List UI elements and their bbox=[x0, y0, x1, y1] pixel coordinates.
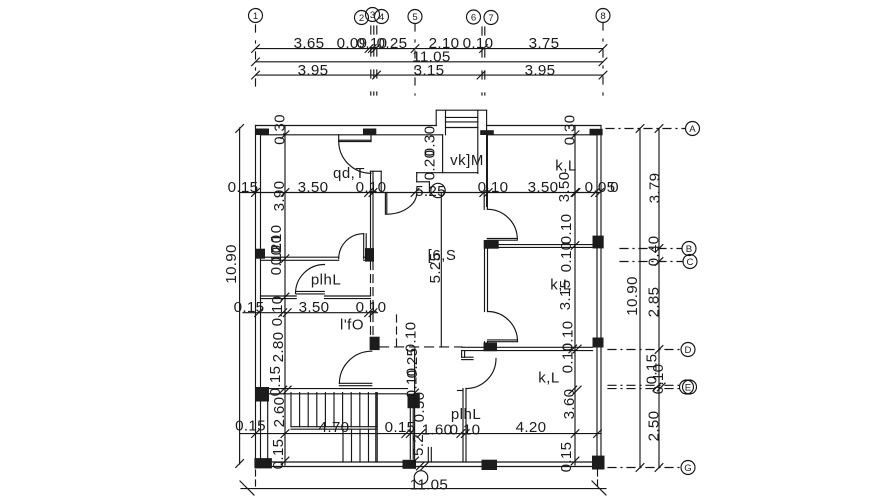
svg-text:plhL: plhL bbox=[311, 272, 341, 289]
svg-text:4.20: 4.20 bbox=[516, 419, 547, 436]
porch top bbox=[436, 109, 486, 111]
bath jamb a bbox=[462, 356, 473, 358]
svg-text:10.90: 10.90 bbox=[624, 276, 641, 316]
wall qd,T east b dashed bbox=[372, 262, 374, 337]
door D6 leaf bbox=[487, 237, 517, 239]
door D8 arc bbox=[466, 359, 496, 389]
wire axis-5 extension bbox=[414, 24, 416, 95]
svg-text:0.10: 0.10 bbox=[558, 214, 575, 245]
wall right outer bbox=[600, 126, 602, 467]
wire tick dim2 bbox=[599, 58, 607, 66]
porch right outer bbox=[486, 110, 488, 206]
wall qd,T east a dashed bbox=[370, 262, 372, 337]
svg-text:3.50: 3.50 bbox=[556, 172, 573, 203]
wall qd,T east b bbox=[372, 171, 374, 248]
wall plhL bottom west b bbox=[261, 298, 297, 300]
wire chainR vertical bbox=[574, 126, 576, 466]
door D4 arc bbox=[296, 265, 325, 294]
svg-text:0.50: 0.50 bbox=[411, 392, 428, 423]
wire chain1 ticks bbox=[252, 189, 260, 197]
wire axis-G extension bbox=[608, 467, 681, 469]
wire tick left bbox=[236, 460, 244, 468]
svg-text:0.10: 0.10 bbox=[356, 299, 387, 316]
svg-text:0.10: 0.10 bbox=[463, 35, 494, 52]
wall lobby west a bbox=[409, 404, 411, 459]
wire tick bottom left bbox=[240, 481, 254, 495]
wall top inner right bbox=[487, 134, 597, 136]
column E left bbox=[256, 387, 269, 402]
wire tick dim3 bbox=[373, 71, 381, 79]
wall qd,T step side bbox=[380, 171, 382, 192]
wire tick dim3 bbox=[252, 71, 260, 79]
wall left pilaster face bbox=[267, 397, 269, 459]
wire tick dim2 bbox=[252, 58, 260, 66]
wire top dim line 3 bbox=[256, 74, 604, 76]
door D5 arc bbox=[488, 312, 518, 342]
wire axis-4 extension bbox=[376, 26, 378, 95]
column G center bbox=[482, 460, 498, 470]
stair landing line b bbox=[291, 428, 377, 430]
svg-text:0.20: 0.20 bbox=[422, 150, 439, 181]
svg-text:3.75: 3.75 bbox=[529, 35, 560, 52]
porch alcove left bbox=[442, 135, 444, 173]
node axis-E bubble bbox=[680, 380, 694, 394]
svg-text:3.50: 3.50 bbox=[299, 299, 330, 316]
door D7 leaf bbox=[339, 382, 371, 384]
svg-text:0.10: 0.10 bbox=[650, 364, 667, 395]
stair landing line a bbox=[291, 426, 377, 428]
column G right bbox=[592, 456, 605, 470]
wire axis-E extension bbox=[608, 384, 680, 386]
stair right edge b bbox=[376, 393, 378, 462]
column top-right bbox=[590, 129, 603, 136]
node axis-C bubble bbox=[683, 255, 697, 269]
wall C plhL top a bbox=[261, 256, 339, 258]
stair upper flight treads bbox=[290, 393, 292, 427]
node axis-5 bubble bbox=[408, 10, 422, 24]
wire tick dim3 bbox=[477, 71, 485, 79]
wall E stair a bbox=[261, 388, 408, 390]
node axis-4 bubble bbox=[375, 10, 389, 24]
column D right bbox=[593, 338, 604, 348]
svg-text:D: D bbox=[685, 345, 692, 356]
wall left inner bbox=[260, 135, 262, 462]
wall B divider b bbox=[499, 246, 593, 248]
column top porch bbox=[480, 130, 494, 135]
wall qd,T east a bbox=[370, 171, 372, 248]
entry step side 2 bbox=[428, 182, 430, 193]
node axis-3 bubble bbox=[366, 8, 380, 22]
wall kL west upper b bbox=[486, 135, 488, 210]
bath wall conn a bbox=[461, 351, 463, 358]
svg-text:5.25: 5.25 bbox=[427, 253, 444, 284]
porch left outer bbox=[435, 110, 437, 125]
wire chainC vertical bbox=[414, 351, 416, 469]
wall left outer bbox=[255, 126, 257, 467]
svg-text:k,L: k,L bbox=[550, 277, 572, 294]
node axis-G bubble bbox=[681, 461, 695, 475]
wire chain4 horizontal bbox=[240, 433, 601, 435]
entry step tread bbox=[417, 181, 430, 183]
stair right edge a bbox=[375, 393, 377, 462]
svg-text:0.40: 0.40 bbox=[646, 236, 663, 267]
wire tick bottom right bbox=[592, 481, 606, 495]
wire chainL ticks bbox=[281, 131, 289, 139]
wall D b bbox=[462, 350, 593, 352]
wall left pilaster cap bbox=[261, 396, 268, 398]
wall kL west lower b bbox=[487, 249, 489, 312]
porch left inner bbox=[445, 110, 447, 135]
porch alcove floor bbox=[417, 172, 478, 174]
wire top dim line 2 (11.05) bbox=[256, 61, 604, 63]
svg-text:4: 4 bbox=[379, 12, 385, 23]
svg-text:4.70: 4.70 bbox=[319, 419, 350, 436]
wall bath jamb small bbox=[458, 390, 464, 392]
wire axis-2 extension bbox=[370, 26, 372, 95]
node axis-8 bubble bbox=[596, 9, 610, 23]
wire chain4 ticks bbox=[252, 430, 260, 438]
wire right dim line inner bbox=[658, 129, 660, 468]
wire tick dim3 bbox=[599, 71, 607, 79]
svg-text:2.85: 2.85 bbox=[646, 287, 663, 318]
wall kL west below-door b bbox=[487, 341, 489, 344]
wire right dim line outer 10.90 bbox=[639, 129, 641, 468]
wall D a bbox=[462, 346, 593, 348]
svg-text:qd,T: qd,T bbox=[333, 165, 365, 182]
column D qdT bbox=[370, 337, 380, 350]
stair lower flight treads bbox=[342, 429, 344, 462]
wire axis-F extension bbox=[608, 388, 680, 390]
wire chain2 horizontal bbox=[243, 312, 378, 314]
column qdT B/C bbox=[365, 248, 374, 262]
wall kL west below-door a bbox=[484, 341, 486, 344]
column E stair-right bbox=[408, 394, 420, 409]
wall top inner bbox=[261, 134, 443, 136]
svg-text:C: C bbox=[687, 257, 694, 268]
svg-text:2.50: 2.50 bbox=[646, 411, 663, 442]
svg-text:2.60: 2.60 bbox=[271, 397, 288, 428]
column B center bbox=[484, 240, 499, 249]
svg-text:2.80: 2.80 bbox=[270, 332, 287, 363]
svg-text:5.25: 5.25 bbox=[415, 183, 446, 200]
door D2 arc bbox=[387, 193, 417, 215]
wall plhL bottom east a bbox=[325, 295, 371, 297]
svg-text:3.95: 3.95 bbox=[525, 62, 556, 79]
wire chainL vertical bbox=[284, 126, 286, 466]
door D6 arc bbox=[487, 209, 517, 239]
svg-text:0: 0 bbox=[610, 179, 619, 196]
door D1 qd,T top leaf bbox=[339, 139, 371, 141]
door D1 arc bbox=[339, 141, 371, 173]
svg-text:3.50: 3.50 bbox=[528, 179, 559, 196]
svg-text:3.65: 3.65 bbox=[294, 35, 325, 52]
wall bottom inner bbox=[261, 461, 598, 463]
porch step 2 bbox=[446, 121, 478, 123]
node axis-7 bubble bbox=[484, 11, 498, 25]
svg-text:11.05: 11.05 bbox=[410, 476, 448, 493]
svg-text:3.95: 3.95 bbox=[298, 62, 329, 79]
svg-text:0.10: 0.10 bbox=[558, 242, 575, 273]
wire tick right inner bbox=[655, 346, 663, 354]
svg-text:8: 8 bbox=[600, 11, 605, 22]
svg-text:0.15: 0.15 bbox=[270, 439, 287, 470]
svg-text:B: B bbox=[686, 244, 692, 255]
column B right bbox=[593, 236, 604, 249]
wire chainC ticks bbox=[411, 389, 419, 397]
column top axis2-4 bbox=[363, 129, 376, 136]
door D1 jamb right bbox=[370, 135, 372, 142]
wire tick right inner bbox=[655, 464, 663, 472]
wall bath west a bbox=[462, 389, 464, 463]
svg-text:A: A bbox=[689, 124, 696, 135]
svg-text:0.25: 0.25 bbox=[377, 35, 408, 52]
svg-text:0.10: 0.10 bbox=[478, 179, 509, 196]
svg-text:1: 1 bbox=[253, 11, 258, 22]
wall right inner bbox=[596, 135, 598, 462]
wire chain2 ticks bbox=[255, 309, 263, 317]
wire tick dim1 bbox=[252, 45, 260, 53]
svg-text:0.15: 0.15 bbox=[234, 299, 265, 316]
svg-text:5: 5 bbox=[412, 12, 417, 23]
wire axis-A extension bbox=[606, 128, 685, 130]
wire bottom dim line 11.05 bbox=[241, 488, 606, 490]
wall kL west lower a bbox=[484, 249, 486, 312]
svg-text:k,L: k,L bbox=[555, 158, 577, 175]
wall nib a bbox=[427, 448, 429, 463]
wall top outer right bbox=[487, 125, 601, 127]
svg-text:0.15: 0.15 bbox=[558, 442, 575, 473]
wire chainR ticks bbox=[571, 131, 579, 139]
node axis-1 bubble bbox=[249, 9, 263, 23]
wire tick dim1 bbox=[372, 45, 380, 53]
bath jamb b bbox=[462, 359, 473, 361]
svg-text:3.79: 3.79 bbox=[647, 173, 664, 204]
wire axis-3 extension bbox=[373, 26, 375, 95]
column D center bbox=[484, 343, 498, 352]
svg-text:0.30: 0.30 bbox=[272, 114, 289, 145]
wire tick left bbox=[236, 125, 244, 133]
wire tick dim1 bbox=[480, 45, 488, 53]
wire tick right outer bbox=[636, 464, 644, 472]
svg-text:l'fO: l'fO bbox=[340, 317, 364, 334]
svg-text:0.15: 0.15 bbox=[228, 179, 259, 196]
porch step 3 bbox=[446, 127, 478, 129]
wall E stair b bbox=[269, 393, 408, 395]
wire top dim line 1 bbox=[256, 48, 604, 50]
svg-text:0.10: 0.10 bbox=[268, 245, 285, 276]
wall kL west upper a bbox=[483, 193, 485, 210]
wall top outer left bbox=[256, 125, 437, 127]
column G left bbox=[254, 458, 272, 468]
wall plhL bottom west a bbox=[261, 295, 297, 297]
column left B/C bbox=[256, 249, 265, 259]
wire tick right inner E bbox=[653, 383, 661, 391]
svg-text:7: 7 bbox=[488, 13, 493, 24]
wire tick right outer bbox=[636, 125, 644, 133]
svg-text:0.15: 0.15 bbox=[267, 366, 284, 397]
svg-text:10.90: 10.90 bbox=[223, 244, 240, 284]
svg-text:0.10: 0.10 bbox=[450, 421, 481, 438]
svg-text:2: 2 bbox=[359, 13, 364, 24]
svg-text:vk]M: vk]M bbox=[450, 152, 484, 169]
wall C plhL top b bbox=[261, 259, 339, 261]
wall bottom outer bbox=[256, 466, 602, 468]
svg-text:0.10: 0.10 bbox=[269, 296, 286, 327]
wire tick right inner bbox=[655, 125, 663, 133]
wire tick dim1 bbox=[365, 45, 373, 53]
dashed line corridor vertical bbox=[396, 315, 398, 347]
wall C stub b bbox=[364, 259, 371, 261]
bath wall conn b bbox=[464, 351, 466, 358]
wire axis-7 extension bbox=[484, 27, 486, 95]
node chain circle bottom bbox=[414, 471, 428, 485]
wall qd,T step top bbox=[371, 170, 382, 172]
node axis-6 bubble bbox=[467, 10, 481, 24]
beam dashed corridor bbox=[380, 346, 462, 348]
wire tick dim1 bbox=[411, 45, 419, 53]
svg-text:6: 6 bbox=[471, 13, 476, 24]
svg-text:G: G bbox=[684, 463, 691, 474]
wire left dim line 10.90 bbox=[239, 128, 241, 464]
svg-text:3: 3 bbox=[370, 10, 375, 21]
svg-text:3.15: 3.15 bbox=[414, 62, 445, 79]
wire bottom ext left bbox=[255, 470, 257, 486]
door D4 leaf bbox=[296, 290, 324, 292]
wire chain1 horizontal bbox=[240, 192, 601, 194]
node axis-A bubble bbox=[686, 122, 700, 136]
svg-text:3.90: 3.90 bbox=[271, 181, 288, 212]
svg-text:0.30: 0.30 bbox=[562, 115, 579, 146]
wire axis-C extension bbox=[620, 261, 683, 263]
wire axis-D extension bbox=[608, 349, 681, 351]
wall nib b bbox=[430, 448, 432, 463]
wire tick right inner bbox=[655, 258, 663, 266]
wire axis-6 extension bbox=[481, 27, 483, 95]
svg-text:k,L: k,L bbox=[538, 370, 560, 387]
wire tick right inner bbox=[655, 245, 663, 253]
door D2 hall leaf bbox=[384, 193, 386, 215]
node axis-D bubble bbox=[681, 343, 695, 357]
svg-text:0.10: 0.10 bbox=[560, 343, 577, 374]
svg-text:plhL: plhL bbox=[451, 406, 481, 423]
wall bath west b bbox=[465, 389, 467, 463]
svg-text:3.60: 3.60 bbox=[561, 389, 578, 420]
column lobby bottom bbox=[403, 460, 417, 469]
door D5 leaf bbox=[488, 339, 518, 341]
node chain circle mid (5) bbox=[431, 183, 445, 197]
svg-text:3.50: 3.50 bbox=[298, 179, 329, 196]
door D3 leaf bbox=[363, 234, 365, 259]
wire axis-1 extension bbox=[255, 25, 257, 95]
wire axis-B extension bbox=[620, 248, 682, 250]
node axis-B bubble bbox=[682, 242, 696, 256]
door D7 arc bbox=[339, 351, 371, 383]
hall divider line bbox=[440, 193, 442, 348]
porch alcove right bbox=[477, 110, 479, 173]
entry step side bbox=[416, 173, 418, 182]
wall lobby west b bbox=[412, 404, 414, 459]
wire tick dim1 bbox=[368, 45, 376, 53]
door D3 arc bbox=[339, 234, 364, 259]
svg-text:5.2: 5.2 bbox=[410, 434, 427, 456]
wall C stub a bbox=[364, 256, 371, 258]
wire bottom ext right bbox=[597, 470, 599, 486]
wall B divider a bbox=[499, 244, 593, 246]
svg-text:0.15: 0.15 bbox=[235, 418, 266, 435]
door D1 jamb left bbox=[338, 135, 340, 142]
node axis-2 bubble bbox=[355, 11, 369, 25]
wire tick dim1 bbox=[599, 45, 607, 53]
column top-left bbox=[256, 129, 270, 136]
porch step 1 bbox=[446, 116, 478, 118]
svg-text:E: E bbox=[685, 383, 691, 394]
wire axis-8 extension bbox=[602, 23, 604, 95]
wall plhL bottom east b bbox=[325, 298, 371, 300]
